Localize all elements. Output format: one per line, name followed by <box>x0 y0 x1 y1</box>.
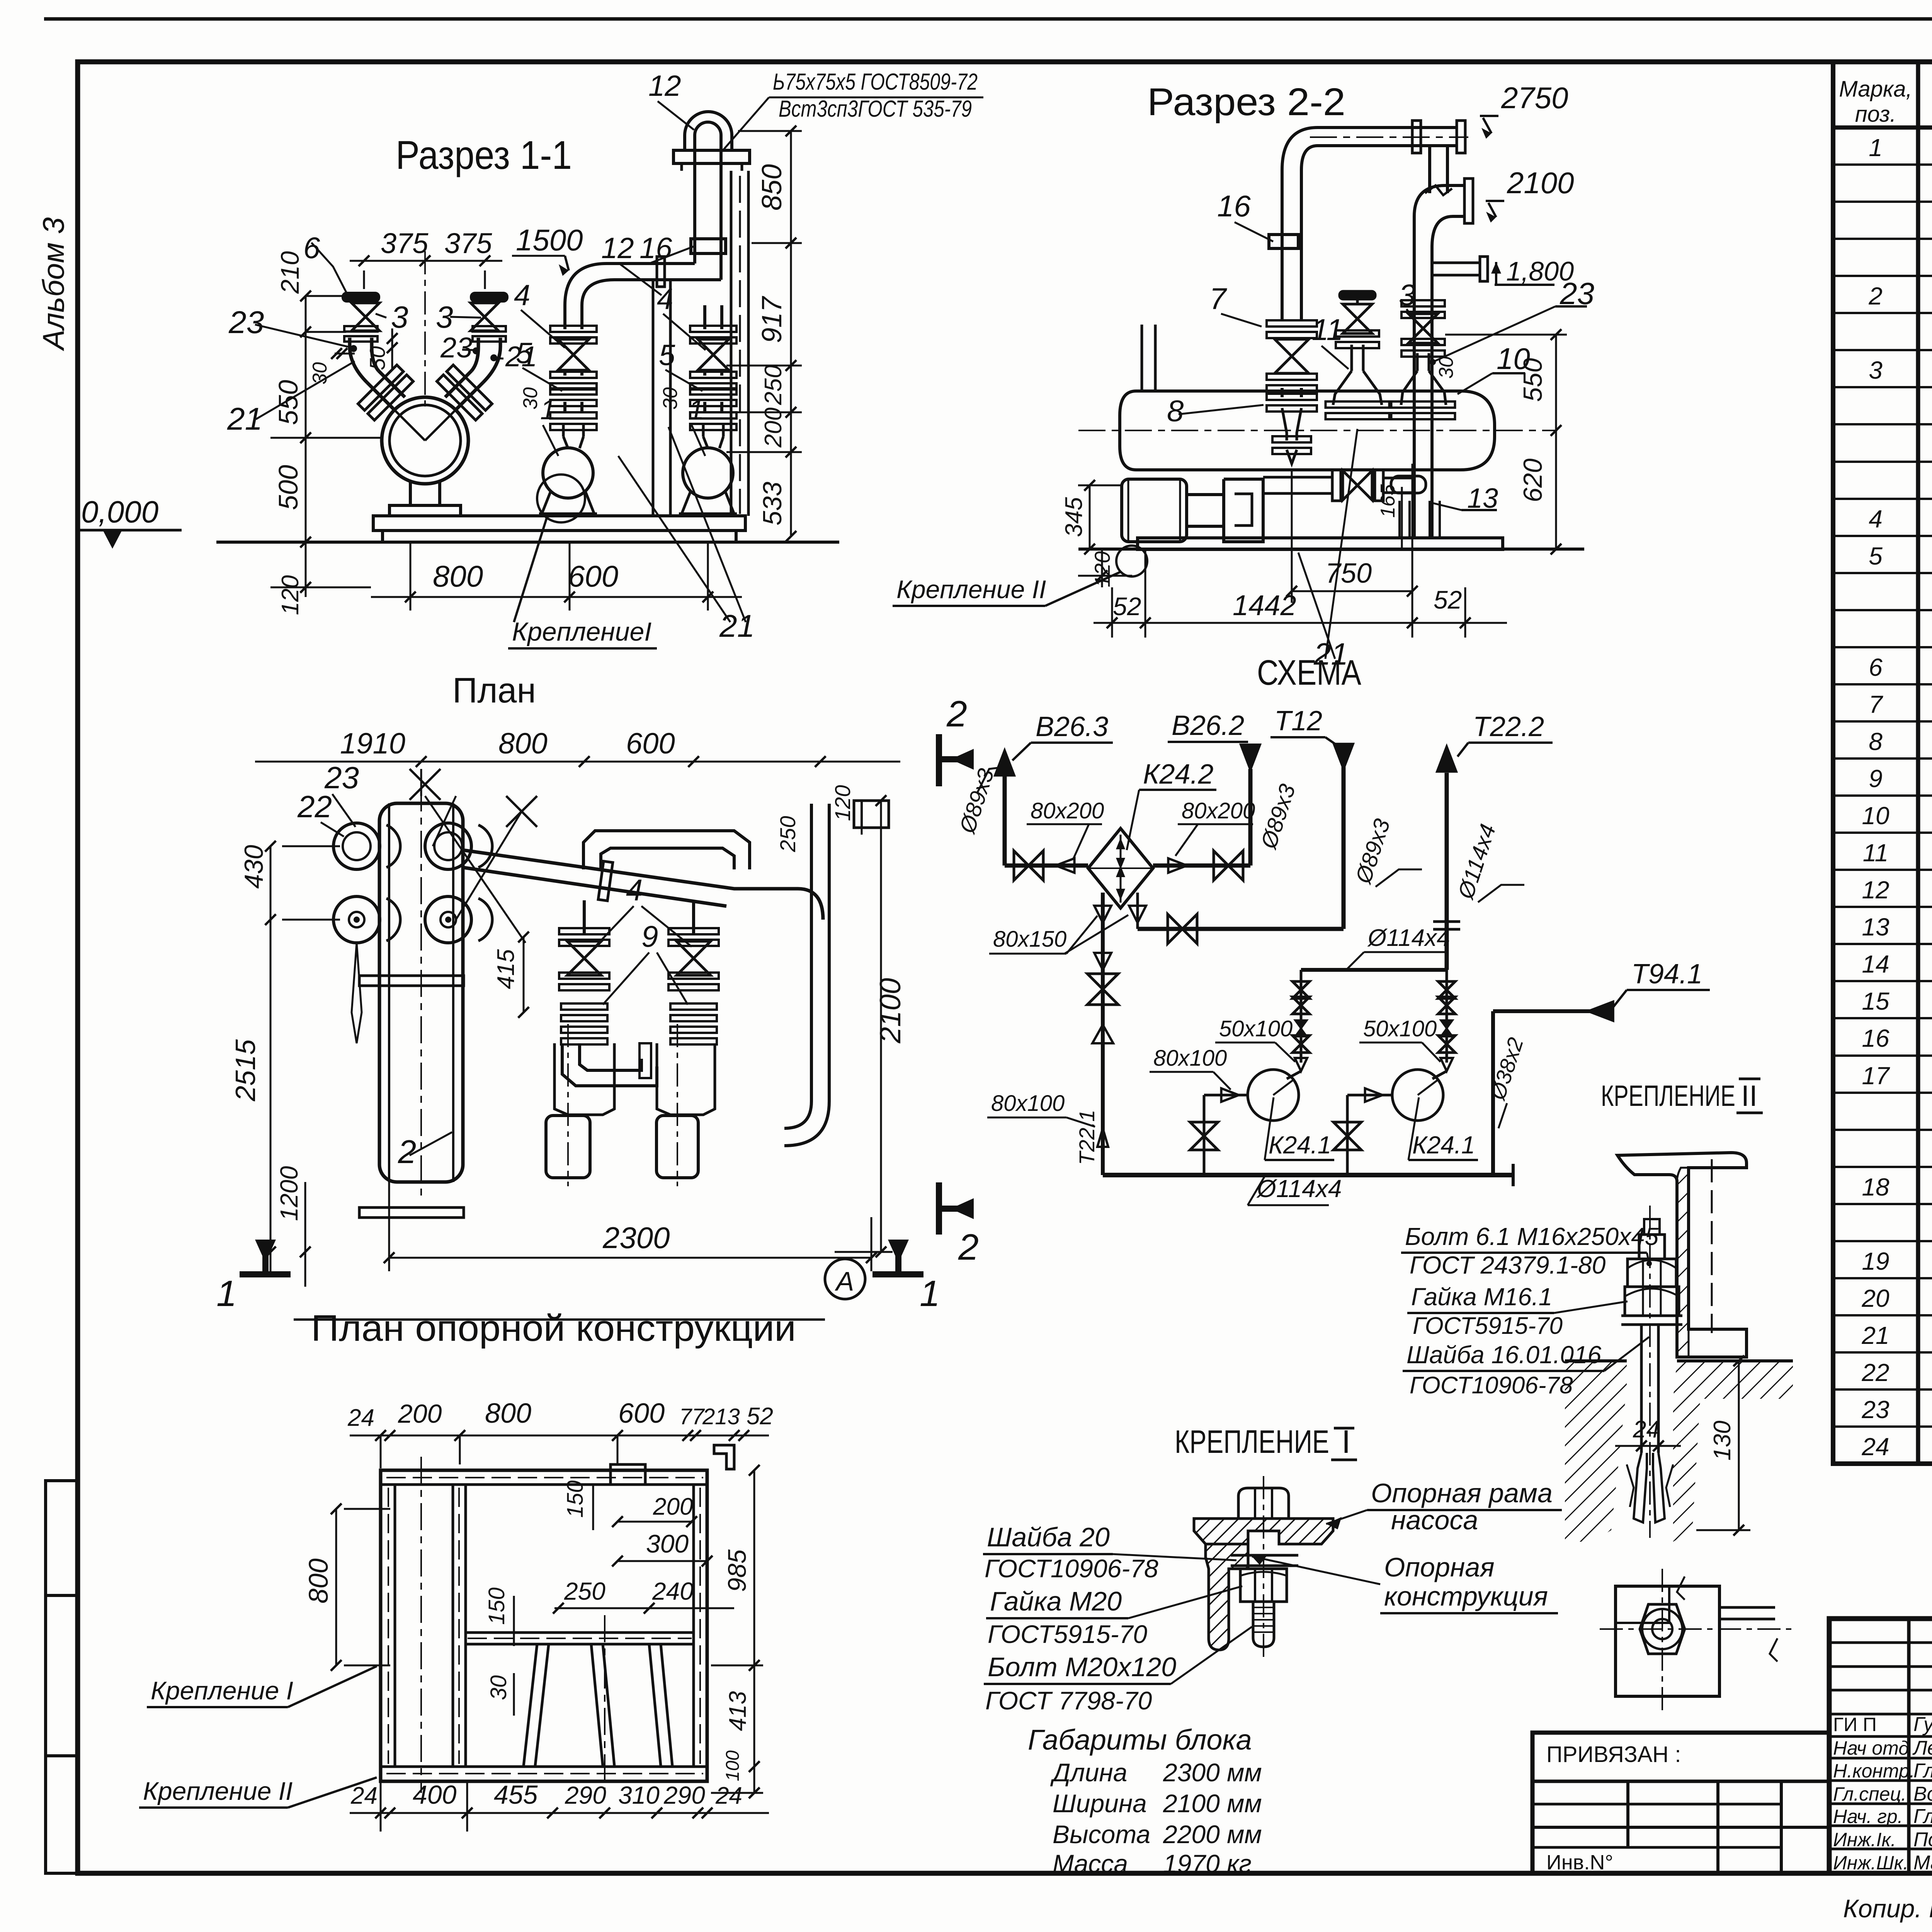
svg-text:23: 23 <box>440 332 472 364</box>
svg-text:5: 5 <box>516 337 532 370</box>
ground line 0.000 <box>216 541 839 544</box>
elbow into horizontal <box>565 264 607 305</box>
svg-text:620: 620 <box>1518 458 1548 502</box>
svg-text:ГИ П: ГИ П <box>1833 1714 1877 1735</box>
svg-text:9: 9 <box>1869 765 1883 793</box>
split anchor end <box>1634 1453 1647 1522</box>
svg-text:30: 30 <box>1435 356 1458 379</box>
from diamond bottom to bypass <box>1136 893 1139 929</box>
svg-text:77: 77 <box>679 1404 705 1429</box>
pump suction U pipe <box>562 1043 657 1086</box>
svg-text:8: 8 <box>1167 394 1184 428</box>
pipe from B26.3 down <box>1003 773 1007 866</box>
bottom dim 52 1442 52 <box>1111 587 1113 638</box>
svg-text:12: 12 <box>601 232 634 265</box>
left member <box>394 1485 396 1767</box>
svg-text:533: 533 <box>758 481 787 526</box>
svg-text:100: 100 <box>723 1750 743 1781</box>
heat exchanger K24.2 diamond <box>1088 828 1153 908</box>
svg-text:80х150: 80х150 <box>993 927 1066 952</box>
svg-text:52: 52 <box>1434 585 1462 614</box>
svg-text:Масса: Масса <box>1053 1849 1128 1878</box>
valve on B26.3 line <box>1014 851 1043 880</box>
svg-text:Поздеева: Поздеева <box>1913 1828 1932 1851</box>
svg-text:План опорной конструкции: План опорной конструкции <box>311 1308 796 1349</box>
svg-text:2: 2 <box>398 1134 416 1170</box>
svg-text:1442: 1442 <box>1233 589 1296 621</box>
svg-text:Разрез 1-1: Разрез 1-1 <box>396 133 572 178</box>
dim 50 <box>391 328 393 369</box>
svg-text:А: А <box>835 1266 854 1296</box>
svg-text:1910: 1910 <box>340 727 405 760</box>
support frame column right <box>730 171 733 516</box>
svg-text:Габариты блока: Габариты блока <box>1028 1724 1252 1756</box>
reducer into K24.2 <box>1056 858 1075 872</box>
lower bypass line <box>1138 927 1344 931</box>
svg-text:12: 12 <box>648 70 681 102</box>
bottom dims 24 400 455 290 310 290 24 <box>350 1812 769 1814</box>
svg-text:430: 430 <box>239 845 269 889</box>
suction Y pipe right branch <box>457 383 483 409</box>
svg-text:9: 9 <box>641 919 658 953</box>
svg-text:310: 310 <box>618 1781 660 1809</box>
collar 16 on left pipe <box>1269 235 1298 248</box>
svg-text:5: 5 <box>659 339 675 372</box>
svg-text:Крепление II: Крепление II <box>143 1777 293 1805</box>
svg-text:24: 24 <box>1633 1416 1660 1443</box>
nut <box>1240 1569 1287 1602</box>
center line <box>424 251 426 410</box>
nozzle pointers <box>352 943 362 1043</box>
svg-text:200: 200 <box>398 1399 442 1429</box>
right flange under valve <box>473 326 506 332</box>
plan view extension lines <box>1719 1606 1775 1609</box>
small fitting center <box>639 1043 651 1078</box>
svg-text:550: 550 <box>1518 358 1548 402</box>
svg-text:2300: 2300 <box>602 1221 670 1255</box>
support frame outline <box>381 1470 707 1781</box>
dim 345 120 <box>1089 485 1091 549</box>
svg-text:750: 750 <box>1325 558 1372 589</box>
svg-text:800: 800 <box>498 727 548 760</box>
privyazan box <box>1532 1733 1829 1873</box>
bracket plan view <box>1616 1586 1719 1696</box>
centerline cross <box>420 1457 422 1793</box>
svg-text:5: 5 <box>1869 542 1883 570</box>
svg-text:80х200: 80х200 <box>1182 798 1255 823</box>
svg-text:СХЕМА: СХЕМА <box>1257 653 1362 692</box>
dim 375 375 <box>350 260 502 262</box>
svg-text:1200: 1200 <box>275 1166 303 1221</box>
middle horizontal member <box>466 1631 694 1634</box>
diagonal braces <box>524 1644 537 1766</box>
valve 4 left <box>558 339 589 370</box>
svg-text:22: 22 <box>1861 1359 1889 1386</box>
left dim 800 <box>335 1509 337 1665</box>
svg-text:150: 150 <box>563 1480 588 1518</box>
svg-text:2200 мм: 2200 мм <box>1163 1820 1262 1849</box>
dim 120 below ground <box>305 542 307 597</box>
collar 16 on riser <box>691 239 726 253</box>
svg-text:300: 300 <box>646 1529 689 1558</box>
svg-text:24: 24 <box>715 1782 742 1809</box>
svg-text:22: 22 <box>297 789 332 824</box>
heat exchanger tank plan <box>379 803 463 1182</box>
svg-text:10: 10 <box>1862 802 1889 830</box>
svg-text:ГОСТ5915-70: ГОСТ5915-70 <box>988 1620 1147 1648</box>
svg-text:18: 18 <box>1862 1173 1889 1201</box>
svg-text:120: 120 <box>277 575 304 615</box>
svg-text:Шайба 20: Шайба 20 <box>987 1522 1110 1552</box>
small stub 1800 <box>1432 262 1480 264</box>
svg-text:ГОСТ 24379.1-80: ГОСТ 24379.1-80 <box>1410 1251 1606 1279</box>
svg-text:Марка,: Марка, <box>1839 77 1912 102</box>
svg-text:4: 4 <box>514 279 530 312</box>
svg-text:8: 8 <box>1869 728 1883 755</box>
svg-text:30: 30 <box>309 362 331 384</box>
tank saddle bars <box>359 976 464 986</box>
right dim chain 550 620 <box>1555 335 1557 549</box>
svg-text:250: 250 <box>564 1577 605 1605</box>
top pipe run <box>1318 126 1457 129</box>
left flange under valve <box>344 326 378 332</box>
svg-text:130: 130 <box>1709 1421 1736 1461</box>
svg-text:Марухина: Марухина <box>1913 1852 1932 1874</box>
svg-text:16: 16 <box>1217 189 1251 223</box>
svg-text:Крепление I: Крепление I <box>151 1676 293 1705</box>
svg-text:800: 800 <box>303 1558 333 1604</box>
flange pair left pipe <box>1267 320 1317 327</box>
svg-text:2100 мм: 2100 мм <box>1163 1789 1262 1818</box>
dims top 1910 800 600 <box>255 761 900 763</box>
section mark 1 bottom <box>872 1240 923 1274</box>
svg-text:213: 213 <box>702 1404 740 1429</box>
svg-text:80х100: 80х100 <box>1153 1046 1227 1071</box>
svg-text:30: 30 <box>486 1675 511 1700</box>
svg-text:II: II <box>1741 1080 1757 1112</box>
svg-text:2: 2 <box>946 694 967 735</box>
svg-text:Крепление II: Крепление II <box>896 575 1046 604</box>
right dims 985 413 100 <box>753 1470 755 1793</box>
floor line with hatch <box>1565 1359 1627 1362</box>
heat exchanger vessel side view <box>1136 391 1495 470</box>
svg-text:600: 600 <box>626 727 675 760</box>
svg-text:120: 120 <box>830 785 855 821</box>
dim 750 <box>1291 471 1293 603</box>
pump motor left <box>1122 479 1187 542</box>
riser base elbow <box>1391 476 1426 493</box>
left elbow to vertical <box>350 338 367 383</box>
riser to B26.2 <box>1248 769 1253 866</box>
top-right corner fitting <box>854 801 889 828</box>
discharge header <box>1301 968 1447 972</box>
svg-text:917: 917 <box>757 296 787 343</box>
svg-text:0,000: 0,000 <box>81 495 158 529</box>
svg-text:1970 кг: 1970 кг <box>1163 1849 1252 1878</box>
flanges lower (pos 9) <box>561 1003 607 1010</box>
bolt top stub <box>1639 1235 1665 1259</box>
svg-text:16: 16 <box>639 232 672 265</box>
kreplenie I ref circle <box>537 474 585 522</box>
valve 3 right <box>471 303 498 331</box>
svg-text:2: 2 <box>958 1227 979 1268</box>
check valve on horizontal <box>1343 471 1372 500</box>
svg-text:24: 24 <box>350 1782 378 1809</box>
svg-text:Ø114х4: Ø114х4 <box>1256 1175 1342 1202</box>
centerline anchor <box>1649 1206 1651 1538</box>
svg-text:Опорная: Опорная <box>1384 1552 1495 1582</box>
exchanger support pedestal <box>409 482 412 505</box>
svg-text:3: 3 <box>1869 356 1883 384</box>
bolt head <box>1238 1488 1289 1519</box>
svg-text:1: 1 <box>689 395 704 425</box>
pipe b26.3 horizontal <box>1005 864 1088 868</box>
bell transition pos 11 <box>1333 371 1352 405</box>
svg-text:1: 1 <box>920 1273 940 1314</box>
svg-text:Т22.1: Т22.1 <box>1075 1110 1099 1165</box>
svg-text:Вст3сп3ГОСТ 535-79: Вст3сп3ГОСТ 535-79 <box>779 96 972 122</box>
washer <box>1231 1554 1298 1557</box>
discharge stack right pump <box>1446 970 1448 1063</box>
node mark A <box>825 1259 865 1299</box>
pump K24.1 left <box>1248 1070 1299 1121</box>
svg-text:600: 600 <box>618 1398 665 1429</box>
svg-text:Нач. гр.: Нач. гр. <box>1833 1806 1903 1827</box>
sheet top edge line <box>44 17 1932 21</box>
reducers under diamond <box>1094 906 1111 923</box>
svg-text:Гайка М16.1: Гайка М16.1 <box>1411 1283 1552 1311</box>
motor boxes plan <box>546 1116 590 1178</box>
centerline <box>1263 1476 1264 1662</box>
upper-right piping loop <box>583 831 750 869</box>
anchor bolt nuts <box>1628 1259 1676 1287</box>
svg-text:250: 250 <box>760 365 787 405</box>
svg-text:24: 24 <box>1861 1433 1889 1461</box>
svg-text:4: 4 <box>1869 505 1883 533</box>
svg-text:Волкова: Волкова <box>1913 1783 1932 1805</box>
svg-text:План: План <box>452 671 536 710</box>
pipe K24.2 to B26.2 <box>1153 864 1250 868</box>
top pipe right end cap <box>1457 121 1465 153</box>
svg-text:Гл.спец.: Гл.спец. <box>1833 1783 1906 1805</box>
right riser pipe plan <box>810 804 813 1101</box>
T22.2 riser down <box>1445 773 1449 970</box>
flange circles top row <box>333 823 380 869</box>
svg-text:290: 290 <box>663 1781 705 1809</box>
left dims 430 2515 1200 <box>270 846 272 1275</box>
svg-text:К24.1: К24.1 <box>1269 1131 1331 1159</box>
riser pipe T22.2 <box>1413 216 1416 538</box>
center marks pumps <box>567 1024 569 1186</box>
pipe flange on diagonal <box>598 861 613 901</box>
svg-text:2515: 2515 <box>230 1039 261 1102</box>
valve 4 right <box>698 339 729 370</box>
svg-text:КреплениеI: КреплениеI <box>512 617 651 646</box>
base rails <box>1138 538 1503 549</box>
bolt shank <box>1253 1602 1274 1647</box>
left dim column 210 550 500 <box>305 296 307 542</box>
svg-text:11: 11 <box>1863 839 1888 867</box>
pipe clamp support beam <box>673 150 750 163</box>
svg-text:250: 250 <box>776 816 800 852</box>
svg-text:7: 7 <box>1209 282 1227 316</box>
svg-text:В26.3: В26.3 <box>1036 711 1108 742</box>
svg-text:поз.: поз. <box>1855 102 1896 127</box>
svg-text:Ширина: Ширина <box>1053 1789 1147 1818</box>
pump unit left (pos 1) <box>543 448 593 498</box>
svg-text:2300 мм: 2300 мм <box>1163 1758 1262 1787</box>
svg-text:3: 3 <box>1399 278 1415 312</box>
handwheel left (pos 6) <box>343 293 379 301</box>
svg-text:2750: 2750 <box>1501 81 1568 115</box>
svg-text:240: 240 <box>652 1577 694 1605</box>
floor line <box>1078 548 1584 551</box>
svg-text:Гусева: Гусева <box>1913 1713 1932 1736</box>
svg-text:50х100: 50х100 <box>1363 1016 1437 1041</box>
svg-text:конструкция: конструкция <box>1384 1581 1548 1611</box>
svg-text:Болт 6.1 М16х250х45: Болт 6.1 М16х250х45 <box>1405 1223 1659 1250</box>
svg-text:ПРИВЯЗАН :: ПРИВЯЗАН : <box>1546 1742 1681 1767</box>
svg-text:23: 23 <box>228 305 264 340</box>
svg-text:В26.2: В26.2 <box>1172 710 1244 741</box>
svg-text:Н.контр.: Н.контр. <box>1833 1760 1915 1782</box>
svg-text:120: 120 <box>1090 551 1114 587</box>
opora OPB1 pos 13 <box>1398 501 1401 538</box>
svg-text:52: 52 <box>747 1403 773 1430</box>
svg-text:455: 455 <box>494 1780 538 1810</box>
svg-text:165: 165 <box>1377 484 1399 518</box>
bolt shank into floor <box>1640 1325 1643 1453</box>
svg-text:150: 150 <box>484 1587 509 1625</box>
left pipe down from elbow <box>1281 170 1284 321</box>
svg-text:550: 550 <box>273 380 303 425</box>
svg-text:15: 15 <box>1862 987 1889 1015</box>
washer bar <box>1621 1315 1682 1317</box>
discharge column right <box>703 437 708 448</box>
T12 drop pipe <box>1342 767 1346 929</box>
inner vertical member <box>452 1485 454 1767</box>
svg-text:2: 2 <box>1868 282 1883 310</box>
corner channel top right <box>714 1445 734 1469</box>
svg-text:1: 1 <box>540 395 556 425</box>
svg-text:290: 290 <box>565 1781 606 1809</box>
handwheel right <box>471 293 507 301</box>
main left riser T22.1 <box>1101 893 1105 1175</box>
svg-text:Гладикова: Гладикова <box>1913 1760 1932 1782</box>
svg-text:13: 13 <box>1862 913 1889 941</box>
svg-text:К24.1: К24.1 <box>1412 1131 1475 1159</box>
svg-text:Инв.N°: Инв.N° <box>1546 1851 1613 1874</box>
svg-text:Инж.Шк.: Инж.Шк. <box>1833 1852 1908 1874</box>
big diagonal pipe from tank <box>463 850 798 889</box>
svg-text:20: 20 <box>1861 1284 1889 1312</box>
svg-text:19: 19 <box>1862 1247 1889 1275</box>
svg-text:6: 6 <box>1869 653 1883 681</box>
crossing mark top <box>410 769 440 800</box>
valves plan (pos 4) <box>567 941 601 975</box>
pump unit right (pos 1) <box>683 448 733 498</box>
svg-text:КРЕПЛЕНИЕ: КРЕПЛЕНИЕ <box>1175 1423 1329 1460</box>
svg-text:30: 30 <box>659 387 682 410</box>
svg-text:Гайка М20: Гайка М20 <box>990 1586 1122 1616</box>
riser continues down <box>693 253 696 264</box>
channel bracket section <box>1617 1153 1747 1357</box>
svg-text:850: 850 <box>757 164 787 211</box>
svg-text:насоса: насоса <box>1391 1505 1478 1535</box>
svg-text:Длина: Длина <box>1050 1758 1127 1787</box>
svg-text:7: 7 <box>1869 690 1883 718</box>
svg-text:80х200: 80х200 <box>1031 798 1104 823</box>
svg-text:400: 400 <box>413 1780 457 1810</box>
bottom dim 2300 <box>388 1182 390 1271</box>
svg-text:Болт М20х120: Болт М20х120 <box>988 1652 1176 1682</box>
right dim 2100 <box>880 801 882 1252</box>
svg-text:4: 4 <box>626 873 643 907</box>
svg-text:375: 375 <box>444 227 492 259</box>
section mark 1 left <box>240 1240 291 1274</box>
svg-text:210: 210 <box>276 251 304 294</box>
svg-text:К24.2: К24.2 <box>1143 759 1214 790</box>
svg-text:16: 16 <box>1862 1024 1889 1052</box>
svg-text:4: 4 <box>657 283 673 316</box>
svg-text:11: 11 <box>1312 313 1343 347</box>
pump frame plate (hatched) <box>1194 1519 1333 1544</box>
svg-text:1: 1 <box>216 1273 237 1314</box>
svg-text:Т22.2: Т22.2 <box>1473 711 1544 742</box>
pumps plan <box>554 1043 614 1115</box>
svg-text:1: 1 <box>1869 134 1883 162</box>
svg-text:ГОСТ10906-78: ГОСТ10906-78 <box>1410 1372 1573 1399</box>
discharge stack left pump <box>1300 970 1303 1063</box>
kreplenie II ref circle <box>1116 546 1147 577</box>
suction line left pump <box>1204 1094 1248 1097</box>
svg-text:ГОСТ10906-78: ГОСТ10906-78 <box>985 1554 1158 1583</box>
svg-text:800: 800 <box>485 1398 531 1429</box>
flange circles second row <box>333 896 380 943</box>
svg-text:14: 14 <box>1862 950 1889 978</box>
svg-text:Т12: Т12 <box>1274 706 1322 736</box>
bottom main pipe <box>1103 1173 1513 1177</box>
section mark 2 bottom <box>939 1182 974 1235</box>
bottom dims 800 600 <box>410 542 412 611</box>
svg-text:345: 345 <box>1061 497 1087 537</box>
svg-text:Опорная рама: Опорная рама <box>1371 1478 1553 1508</box>
top channel double line <box>381 1483 707 1486</box>
riser pipe pos 12 with U-bend <box>693 135 696 264</box>
pump casing <box>1224 479 1263 542</box>
svg-text:50х100: 50х100 <box>1219 1016 1293 1041</box>
svg-text:Нач отд: Нач отд <box>1833 1737 1909 1759</box>
svg-text:200: 200 <box>760 408 787 448</box>
right branch valve group <box>1401 300 1445 306</box>
section mark 2 top <box>939 734 974 786</box>
right elbow to vertical <box>483 338 500 383</box>
reducer left pipe <box>1282 408 1287 440</box>
title block outer <box>1829 1619 1932 1873</box>
svg-text:ГОСТ 7798-70: ГОСТ 7798-70 <box>985 1686 1152 1715</box>
specification table grid <box>1833 62 1932 1464</box>
svg-text:375: 375 <box>381 227 429 259</box>
svg-text:Лепендин: Лепендин <box>1912 1737 1932 1759</box>
svg-text:Копир. Ганкова: Копир. Ганкова <box>1843 1894 1932 1923</box>
dim 130 <box>1738 1361 1740 1530</box>
svg-text:415: 415 <box>493 949 519 989</box>
svg-text:2100: 2100 <box>1507 166 1574 200</box>
hex nut plan <box>1640 1604 1685 1654</box>
flange on horizontal pipe <box>657 257 665 287</box>
svg-text:2100: 2100 <box>874 978 907 1044</box>
flange on top pipe <box>1412 121 1421 153</box>
